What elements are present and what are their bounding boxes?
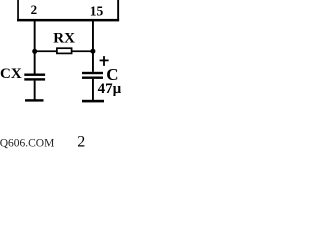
capacitor CX bottom plate (24, 78, 45, 80)
svg-text:Q606.COM: Q606.COM (0, 138, 54, 150)
wire resistor right lead (72, 50, 93, 52)
svg-text:15: 15 (90, 3, 104, 18)
C end terminal bar (82, 100, 104, 103)
wire resistor left lead (35, 50, 57, 52)
resistor RX body (57, 48, 72, 53)
svg-text:47µ: 47µ (98, 81, 122, 97)
node junction left (pin2/RX) (32, 49, 37, 54)
svg-text:RX: RX (53, 30, 75, 46)
svg-text:2: 2 (77, 134, 85, 151)
svg-text:2: 2 (31, 2, 37, 17)
wire CX lower (34, 81, 36, 100)
wire pin 15 vertical (92, 21, 94, 72)
svg-text:CX: CX (0, 66, 22, 82)
wire pin 2 vertical (34, 21, 36, 74)
op-amp U1 (IC box, partial, top) (17, 0, 119, 21)
CX end terminal bar (25, 99, 44, 101)
capacitor CX top plate (24, 74, 45, 76)
capacitor C plus sign (100, 56, 109, 66)
capacitor C top plate (82, 72, 103, 74)
capacitor C bottom plate (82, 77, 103, 79)
wire C lower (92, 79, 94, 100)
node junction right (pin15/RX) (90, 49, 95, 54)
